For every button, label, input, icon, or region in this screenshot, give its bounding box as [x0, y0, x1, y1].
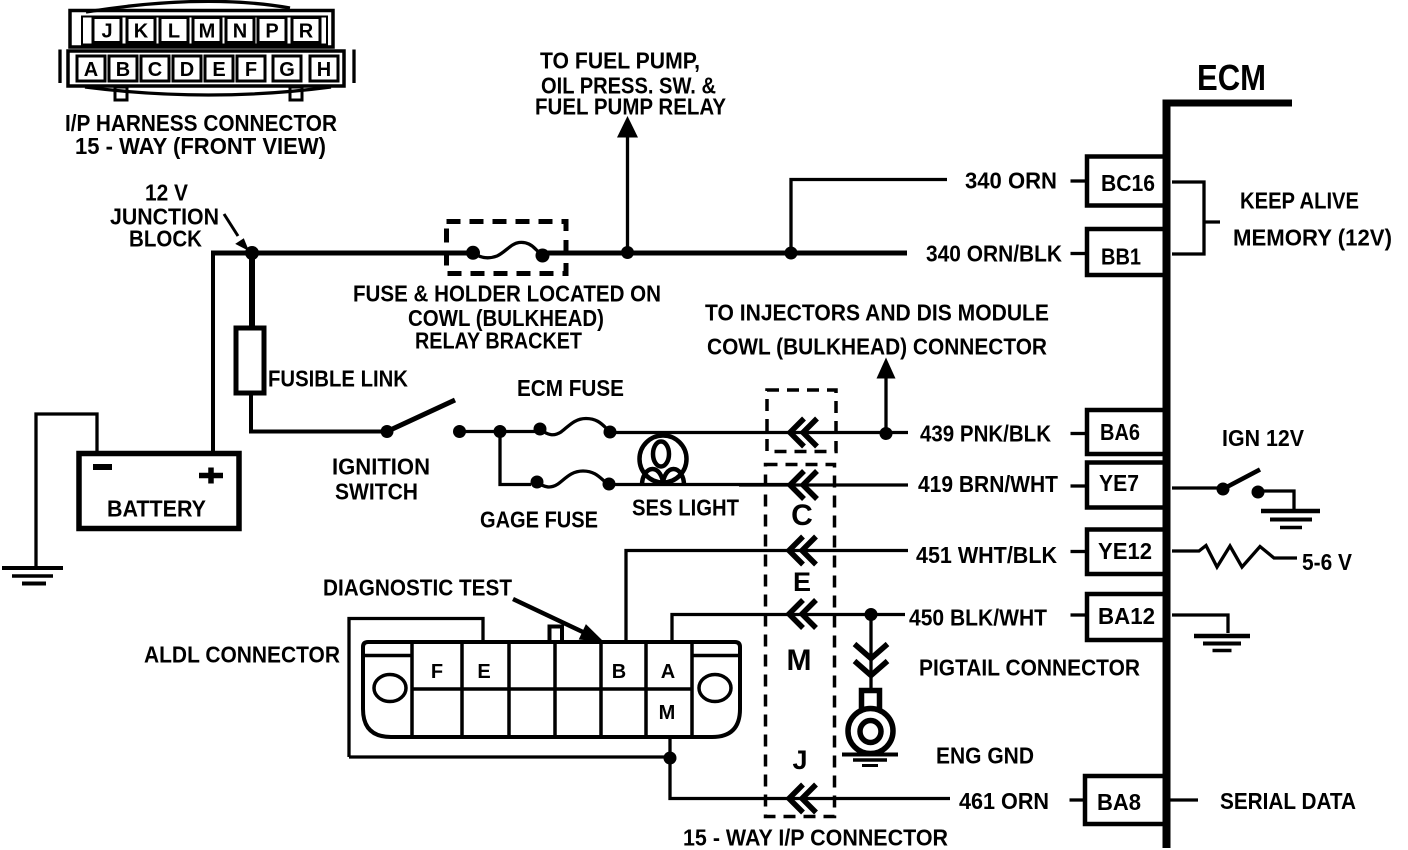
svg-text:BLOCK: BLOCK: [129, 226, 202, 252]
svg-text:12 V: 12 V: [145, 180, 189, 206]
svg-text:BB1: BB1: [1101, 244, 1141, 270]
svg-text:C: C: [148, 59, 162, 81]
svg-text:GAGE FUSE: GAGE FUSE: [480, 507, 598, 533]
svg-text:TO FUEL PUMP,: TO FUEL PUMP,: [540, 48, 700, 74]
svg-text:A: A: [84, 59, 98, 81]
svg-text:DIAGNOSTIC TEST: DIAGNOSTIC TEST: [323, 575, 512, 601]
svg-text:BA8: BA8: [1097, 789, 1141, 815]
svg-text:419 BRN/WHT: 419 BRN/WHT: [918, 471, 1058, 497]
svg-text:451 WHT/BLK: 451 WHT/BLK: [916, 542, 1057, 568]
svg-text:ALDL CONNECTOR: ALDL CONNECTOR: [144, 642, 340, 668]
svg-text:J: J: [792, 745, 807, 775]
svg-text:FUSIBLE LINK: FUSIBLE LINK: [268, 366, 408, 392]
svg-text:BA12: BA12: [1098, 603, 1155, 629]
svg-text:5-6 V: 5-6 V: [1302, 549, 1353, 575]
svg-text:E: E: [793, 567, 811, 597]
svg-text:SWITCH: SWITCH: [335, 479, 418, 505]
svg-text:E: E: [477, 661, 490, 683]
svg-text:R: R: [299, 21, 314, 43]
svg-text:439 PNK/BLK: 439 PNK/BLK: [920, 421, 1051, 447]
svg-text:RELAY BRACKET: RELAY BRACKET: [415, 328, 582, 354]
svg-text:IGNITION: IGNITION: [332, 454, 430, 480]
svg-text:450 BLK/WHT: 450 BLK/WHT: [909, 605, 1047, 631]
svg-text:D: D: [180, 59, 194, 81]
svg-text:H: H: [317, 59, 331, 81]
svg-text:ECM: ECM: [1197, 57, 1266, 98]
svg-text:G: G: [279, 59, 295, 81]
svg-text:BC16: BC16: [1101, 170, 1155, 196]
svg-text:BATTERY: BATTERY: [107, 496, 206, 522]
svg-text:340 ORN: 340 ORN: [965, 168, 1057, 194]
svg-text:MEMORY (12V): MEMORY (12V): [1233, 225, 1392, 251]
svg-text:FUSE & HOLDER LOCATED ON: FUSE & HOLDER LOCATED ON: [353, 281, 661, 307]
svg-text:IGN 12V: IGN 12V: [1222, 425, 1305, 451]
svg-text:A: A: [661, 661, 675, 683]
svg-text:YE12: YE12: [1098, 538, 1152, 564]
svg-text:N: N: [233, 21, 247, 43]
svg-text:M: M: [659, 702, 676, 724]
svg-text:340 ORN/BLK: 340 ORN/BLK: [926, 241, 1062, 267]
svg-text:SERIAL DATA: SERIAL DATA: [1220, 788, 1356, 814]
svg-text:SES LIGHT: SES LIGHT: [632, 495, 739, 521]
svg-text:F: F: [431, 661, 443, 683]
svg-text:E: E: [212, 59, 225, 81]
svg-text:YE7: YE7: [1099, 470, 1139, 496]
svg-text:M: M: [199, 21, 216, 43]
svg-text:COWL (BULKHEAD) CONNECTOR: COWL (BULKHEAD) CONNECTOR: [707, 334, 1047, 360]
svg-text:PIGTAIL CONNECTOR: PIGTAIL CONNECTOR: [919, 655, 1140, 681]
svg-text:KEEP ALIVE: KEEP ALIVE: [1240, 188, 1359, 214]
svg-text:P: P: [265, 21, 278, 43]
svg-text:15 - WAY (FRONT VIEW): 15 - WAY (FRONT VIEW): [75, 133, 326, 159]
svg-text:C: C: [791, 499, 813, 532]
svg-text:15 - WAY I/P CONNECTOR: 15 - WAY I/P CONNECTOR: [683, 825, 948, 850]
svg-text:B: B: [116, 59, 130, 81]
svg-text:L: L: [168, 21, 180, 43]
svg-text:M: M: [787, 644, 812, 677]
svg-text:ECM FUSE: ECM FUSE: [517, 375, 624, 401]
svg-text:TO INJECTORS AND DIS MODULE: TO INJECTORS AND DIS MODULE: [705, 300, 1049, 326]
svg-text:B: B: [612, 661, 626, 683]
svg-text:ENG GND: ENG GND: [936, 743, 1034, 769]
svg-text:J: J: [101, 21, 112, 43]
svg-text:BA6: BA6: [1100, 419, 1140, 445]
svg-text:461 ORN: 461 ORN: [959, 788, 1049, 814]
svg-text:FUEL PUMP RELAY: FUEL PUMP RELAY: [535, 94, 726, 120]
svg-text:F: F: [245, 59, 257, 81]
svg-text:K: K: [134, 21, 149, 43]
